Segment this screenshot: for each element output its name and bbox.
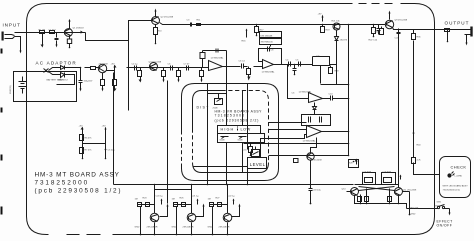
resistor R13 hanging	[178, 68, 180, 71]
transistor Q9 output buffer	[385, 20, 393, 28]
svg-text:Q9 2SC2458: Q9 2SC2458	[395, 20, 408, 22]
capacitor C101 below +9V node	[114, 71, 116, 80]
resistor network box RN2	[260, 39, 282, 45]
svg-text:R7 47k: R7 47k	[85, 150, 93, 152]
resistor R45 below Q10	[360, 195, 362, 204]
resistor R40 to LED	[414, 41, 440, 175]
wire: input signal	[15, 32, 86, 34]
capacitor C7a on band	[187, 66, 189, 71]
wire: riser x397.5	[398, 29, 400, 188]
resistor R22 stub on rail	[373, 25, 375, 28]
capacitor C4a on band	[135, 66, 137, 71]
svg-text:Q2 2SC2458: Q2 2SC2458	[161, 17, 174, 19]
arrow terminal at switch end	[449, 209, 451, 213]
flip-flop bottom rail	[355, 196, 407, 209]
resistor below Q3	[102, 73, 104, 80]
resistor R30 left of Q7	[294, 159, 299, 163]
pot VR3 LOW	[239, 137, 247, 139]
wire: U3 output with capacitor C13	[323, 96, 349, 101]
svg-text:LOW: LOW	[241, 128, 251, 132]
svg-text:C22 1μ: C22 1μ	[228, 196, 236, 198]
svg-text:INPUT: INPUT	[3, 23, 21, 28]
diode pair D3 D4	[313, 103, 317, 115]
wire: riser x113	[113, 73, 115, 185]
transistor Q10	[351, 188, 359, 196]
wire: vert x241.5	[242, 91, 244, 173]
svg-text:C7 47: C7 47	[184, 64, 191, 66]
wire: U4 down to Q7	[311, 138, 317, 153]
wire: output rail y29	[393, 28, 463, 30]
output jack J2	[463, 30, 471, 37]
svg-text:1/2 M5218AL: 1/2 M5218AL	[211, 57, 225, 60]
op-amp U2a	[263, 60, 274, 69]
wire: vert x167 band to cell1	[167, 81, 169, 204]
svg-text:C5 22μ: C5 22μ	[108, 150, 116, 152]
svg-text:Q1 2SK118: Q1 2SK118	[73, 28, 85, 30]
wire: to x336.5 riser	[330, 65, 337, 85]
wire: riser x347.8	[348, 25, 350, 156]
wire: to second stage riser	[86, 33, 129, 41]
capacitor C2 stub	[42, 34, 44, 45]
wire Q7 down	[310, 160, 312, 185]
feedback network box U4	[302, 115, 331, 126]
wire from loop top to boxes	[270, 45, 272, 47]
capacitor C3 on rail	[191, 23, 192, 27]
svg-text:+9V: +9V	[318, 14, 322, 16]
svg-text:GND: GND	[172, 227, 177, 229]
resistor R15 hanging	[248, 67, 250, 69]
resistor R47 below rail	[409, 192, 411, 215]
resistor R46 below Q10b	[366, 189, 368, 204]
transistor Q2	[152, 17, 160, 25]
wire: y84 to op-amp3 block	[321, 84, 349, 86]
svg-text:+9V: +9V	[111, 64, 115, 66]
wire to U2a	[254, 66, 263, 68]
resistor R11 on rail	[197, 24, 201, 26]
wire riser x287 to U3 input	[288, 65, 309, 99]
pot VR4 LEVEL	[252, 150, 260, 157]
svg-text:7318252000: 7318252000	[35, 180, 90, 187]
svg-text:2SK118GR: 2SK118GR	[219, 227, 230, 229]
svg-text:OUTPUT: OUTPUT	[445, 21, 470, 26]
resistor R5 stub below Q1	[69, 36, 71, 48]
input jack J1	[5, 35, 21, 39]
ground stub at output jack	[466, 37, 468, 43]
wire: y142 cross	[244, 143, 349, 145]
wire: DIST loop top	[208, 93, 227, 95]
+9V above Q9	[389, 14, 391, 20]
capacitor C14 stub on rail	[377, 25, 381, 35]
wire: y161 to check riser	[269, 155, 349, 157]
svg-text:R22 C14: R22 C14	[369, 40, 378, 42]
svg-text:3W HM0106: 3W HM0106	[261, 42, 274, 44]
svg-text:HM-3 MT BOARD ASSY: HM-3 MT BOARD ASSY	[35, 172, 120, 179]
LED D5	[448, 174, 451, 177]
junction and cap stub x294	[294, 64, 296, 66]
junction dots on top rail	[256, 24, 375, 26]
svg-text:2SC2458: 2SC2458	[313, 160, 323, 162]
pot box under HIGH/LOW	[218, 134, 265, 143]
resistor R50	[85, 67, 91, 69]
+9V branch pair right	[105, 129, 107, 159]
dashed VR board outline B (top half dashed)	[193, 91, 222, 129]
wire: riser to Q2	[129, 21, 152, 41]
svg-text:006P(9V): 006P(9V)	[10, 85, 12, 94]
capacitor C24 stub	[397, 30, 401, 37]
wire: band feed riser	[128, 41, 130, 111]
flip-flop right loop	[382, 173, 396, 185]
wire: short rail y189	[155, 189, 192, 191]
resistor R6	[80, 135, 84, 141]
op-amp U1a	[209, 61, 223, 71]
svg-text:1/2 M5218AL: 1/2 M5218AL	[303, 140, 317, 143]
svg-text:C6 C4: C6 C4	[239, 61, 246, 63]
svg-text:DM 1N4148: DM 1N4148	[261, 36, 273, 38]
transistor Q11	[395, 188, 403, 196]
wire: vert x207 through VR area	[207, 84, 209, 185]
resistor network box RN1	[260, 32, 282, 38]
diode D1	[57, 66, 81, 70]
resistor R4 stub	[55, 33, 59, 45]
wire: main top rail y24	[160, 23, 386, 25]
battery BT1	[19, 77, 27, 94]
svg-text:R6 47k: R6 47k	[85, 138, 93, 140]
svg-text:(pcb 22930508 2/2): (pcb 22930508 2/2)	[215, 119, 260, 123]
DC jack	[44, 68, 57, 75]
svg-text:1M: 1M	[172, 199, 175, 201]
svg-text:7310523000 (1/2): 7310523000 (1/2)	[443, 190, 461, 192]
junction dots on rails	[207, 84, 355, 186]
svg-text:SW1: SW1	[437, 202, 443, 204]
resistor R47 below Q11	[389, 189, 391, 204]
flip-flop top rail	[355, 184, 399, 186]
svg-text:WITH LED BOARD ASSY: WITH LED BOARD ASSY	[443, 185, 469, 188]
+9V node after Q3	[107, 68, 115, 71]
svg-text:AC ADAPTOR: AC ADAPTOR	[36, 61, 77, 66]
resistor R8 hanging	[140, 68, 142, 71]
wire: y122.4 to U3	[269, 122, 307, 124]
svg-text:GND: GND	[135, 227, 140, 229]
capacitor C6 series	[242, 64, 248, 69]
resistor R18 hanging	[330, 66, 332, 68]
VR board outline B bottom	[193, 163, 269, 173]
+9V branch at x322	[322, 25, 324, 27]
resistor R1	[40, 31, 45, 34]
border top dashed segment	[359, 3, 393, 5]
ground stub at input jack	[20, 39, 22, 51]
svg-text:R1 1M: R1 1M	[39, 30, 46, 32]
svg-text:+9V: +9V	[102, 126, 106, 128]
svg-text:C20 1μ: C20 1μ	[156, 196, 164, 198]
svg-text:1/2 M5218AL: 1/2 M5218AL	[262, 71, 276, 74]
resistor R14 hanging	[201, 68, 203, 71]
capacitor C4b	[289, 62, 291, 67]
resistor R10 below Q2	[155, 25, 157, 28]
capacitor C100 (100u)	[79, 68, 83, 89]
wire: U2a output rail	[274, 64, 313, 66]
battery box	[14, 72, 77, 102]
bottom switching cell 3	[208, 184, 241, 236]
svg-text:L-53HD: L-53HD	[455, 176, 463, 178]
svg-text:GND: GND	[208, 227, 213, 229]
wire: LEVEL to U4 input	[261, 135, 307, 158]
wire to effect switch	[407, 208, 450, 210]
svg-text:2SK118GR: 2SK118GR	[183, 227, 194, 229]
bottom switching cell 2	[172, 184, 205, 236]
svg-text:2SK118GR: 2SK118GR	[147, 227, 158, 229]
svg-text:R21 10k: R21 10k	[332, 21, 341, 23]
svg-text:2SC2458: 2SC2458	[99, 64, 109, 66]
wire: vert x226.3	[226, 91, 228, 185]
svg-text:C21 1μ: C21 1μ	[192, 196, 200, 198]
solid routing box A	[182, 84, 279, 181]
+9V stem above Q1	[69, 22, 71, 29]
transistor Q7	[307, 153, 314, 160]
svg-text:Q4 2SC2458: Q4 2SC2458	[149, 62, 162, 64]
svg-text:GND: GND	[435, 206, 440, 208]
svg-text:C26 R44: C26 R44	[383, 172, 392, 174]
wire: U1a output	[223, 66, 241, 68]
cross coupling wires	[359, 187, 395, 191]
svg-text:100μ16V: 100μ16V	[84, 81, 93, 83]
wire: U4 output to riser	[322, 131, 349, 133]
pot VR1 DIST	[215, 99, 223, 105]
svg-text:7318253000: 7318253000	[215, 114, 246, 118]
svg-text:C18 47μ: C18 47μ	[313, 190, 322, 192]
border bottom dashed segment	[67, 234, 101, 236]
+9V arrow above Q2	[155, 12, 157, 17]
transistor Q4	[150, 63, 158, 71]
svg-text:GND: GND	[411, 214, 416, 216]
wire y166 inside VR box	[194, 166, 248, 168]
svg-text:1M: 1M	[208, 199, 211, 201]
svg-text:CHECK: CHECK	[451, 165, 467, 170]
svg-text:+9V: +9V	[79, 126, 83, 128]
svg-text:50kB: 50kB	[238, 140, 244, 142]
wire joining branch pair	[83, 143, 106, 145]
svg-text:C1 047: C1 047	[49, 30, 57, 32]
svg-text:BATTERY SNAP: BATTERY SNAP	[47, 79, 64, 82]
resistor R12 hanging	[163, 68, 165, 71]
+9V branch pair left	[82, 129, 84, 159]
svg-text:C25 R43: C25 R43	[363, 172, 372, 174]
effect on/off switch SW1	[437, 206, 439, 208]
op-amp U4	[307, 126, 322, 138]
bottom switching cell 1	[135, 184, 169, 236]
capacitor C5b	[299, 62, 301, 67]
capacitor C8 in loop	[268, 47, 270, 52]
feedback loop U2a	[259, 49, 282, 65]
resistor R7	[80, 148, 84, 154]
wire: y129 to U4	[269, 129, 307, 131]
svg-text:C4 1μ: C4 1μ	[132, 64, 139, 66]
feedback loop C7	[313, 57, 330, 66]
resistor R36 on output wire	[445, 29, 450, 32]
diode D6 below Q12	[335, 31, 339, 65]
LEVEL label box	[248, 158, 267, 169]
wire: y183 long rail	[114, 184, 354, 186]
transistor Q3 (power)	[98, 64, 106, 72]
diode D2	[57, 73, 75, 85]
resistor R2	[50, 31, 55, 34]
wire: band rail y67.3	[127, 67, 209, 69]
wire: vert x247	[247, 84, 249, 185]
pot VR2 HIGH	[221, 137, 229, 139]
svg-text:(pcb 22930508 1/2): (pcb 22930508 1/2)	[35, 188, 123, 195]
resistor R28 loop	[349, 160, 359, 168]
transistor Q12 on top rail	[333, 23, 340, 30]
svg-text:HIGH: HIGH	[221, 128, 235, 132]
op-amp U3	[309, 93, 323, 103]
capacitor C18 stub	[309, 185, 313, 204]
svg-text:LEVEL: LEVEL	[250, 162, 266, 167]
capacitor C6a on band	[171, 66, 173, 71]
svg-text:R47 1M: R47 1M	[411, 208, 419, 210]
+9V feed arrow x246	[246, 31, 248, 38]
svg-text:1M: 1M	[135, 199, 138, 201]
HIGH LOW box	[218, 126, 261, 134]
capacitor C16 stub between cross rails	[250, 144, 252, 147]
flip-flop left loop	[363, 173, 376, 185]
svg-text:ON/OFF: ON/OFF	[437, 224, 453, 228]
wire: output jack sleeve down	[447, 30, 449, 42]
resistor R35 stub	[413, 30, 415, 34]
resistor R17 hanging at x256	[256, 25, 258, 27]
node: scan edge artifacts	[1, 49, 3, 215]
svg-text:1S2473: 1S2473	[340, 40, 348, 42]
signal arrow after Q1	[74, 32, 81, 34]
CHECK box	[440, 157, 471, 198]
resistor R33	[381, 27, 383, 29]
wire: riser x320	[320, 66, 322, 84]
U1a feedback loop	[203, 51, 227, 91]
svg-text:50kB: 50kB	[220, 140, 226, 142]
transistor Q1	[65, 29, 73, 37]
wire Q11 collector right	[403, 191, 410, 193]
